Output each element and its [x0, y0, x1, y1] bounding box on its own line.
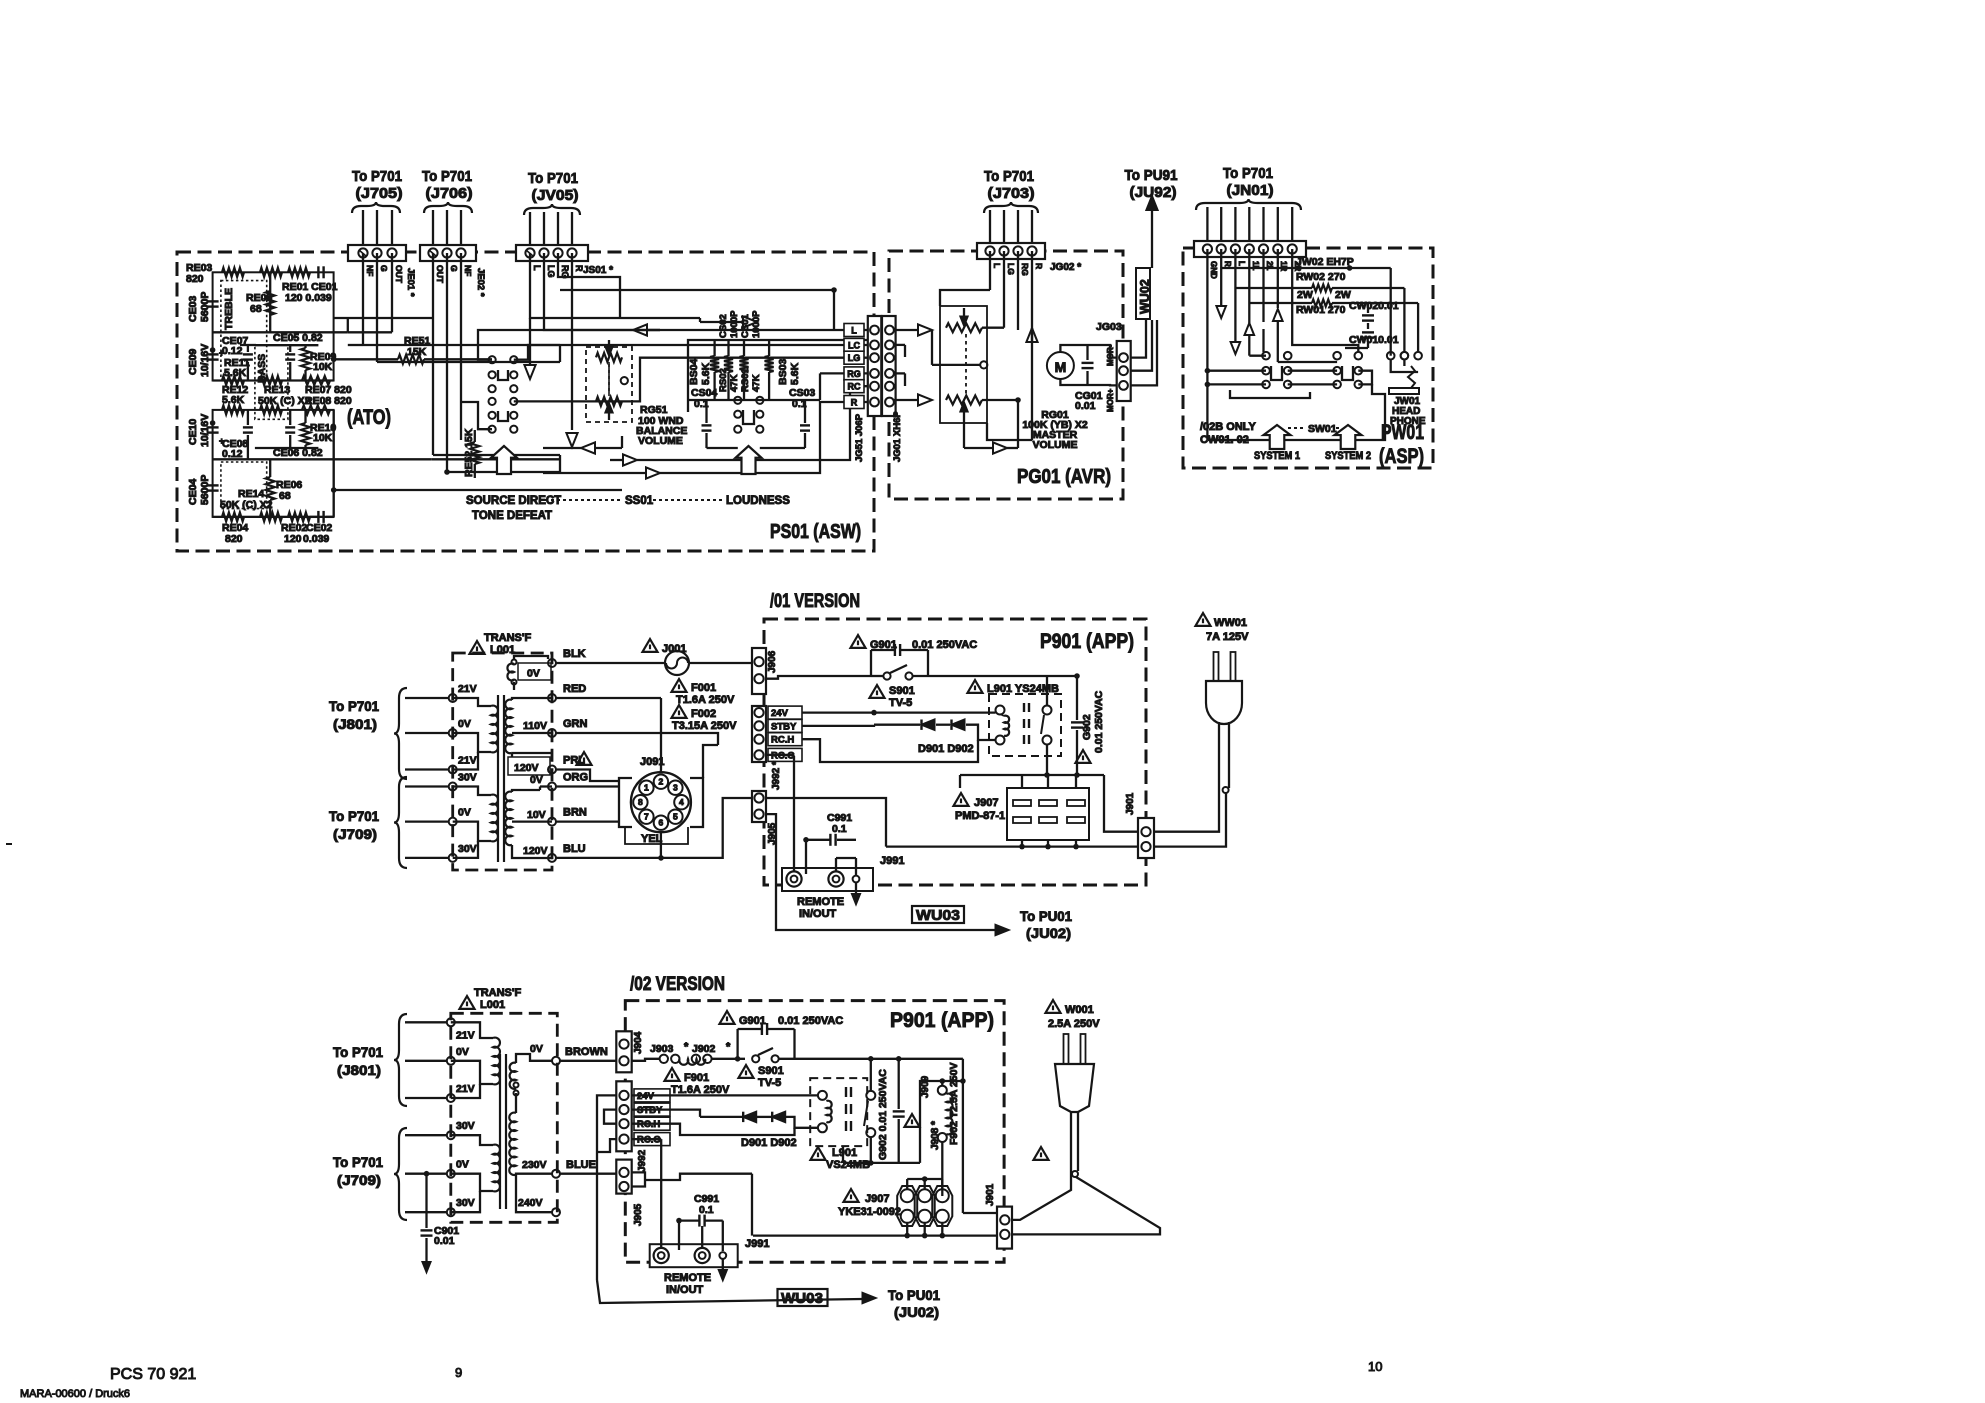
svg-text:0V: 0V [530, 774, 543, 786]
svg-text:2: 2 [659, 777, 664, 787]
svg-text:TONE DEFEAT: TONE DEFEAT [472, 510, 552, 522]
arrow SYSTEM1 [1264, 425, 1291, 449]
svg-text:F002: F002 [691, 708, 716, 720]
wire STBY run /02 [632, 1110, 700, 1117]
capacitor CE02 [317, 511, 319, 523]
pin1 mark JE01 [359, 250, 366, 256]
svg-text:To P701: To P701 [352, 168, 402, 185]
svg-text:LC: LC [848, 340, 860, 350]
svg-text:W001: W001 [1065, 1004, 1094, 1016]
resistor RE12 [222, 376, 244, 385]
wire bottom bus /01 [886, 845, 1140, 847]
svg-text:/01 VERSION: /01 VERSION [770, 591, 860, 612]
svg-text:10/16V: 10/16V [199, 414, 211, 447]
svg-text:R: R [1034, 263, 1044, 269]
wire brown run [560, 1060, 616, 1062]
relay box L901 /02 [810, 1078, 867, 1146]
svg-text:6: 6 [659, 818, 664, 828]
capacitor C991 /01 [829, 834, 831, 846]
pin label LG [844, 351, 864, 364]
svg-text:(JU02): (JU02) [1026, 925, 1071, 941]
pin label RG [844, 367, 864, 380]
svg-text:0V: 0V [530, 1043, 543, 1055]
capacitor CE06 [285, 426, 295, 428]
remote jack2 /02 [695, 1248, 710, 1263]
svg-text:8: 8 [638, 797, 643, 807]
label box WU02 [1136, 268, 1150, 319]
remote box /02 [650, 1244, 738, 1267]
label S901 /01 [870, 685, 885, 698]
svg-text:JG02 *: JG02 * [1050, 262, 1081, 273]
svg-text:BROWN: BROWN [565, 1046, 608, 1058]
svg-text:RS02: RS02 [718, 368, 729, 392]
svg-text:50K (C) X2: 50K (C) X2 [258, 395, 311, 407]
svg-text:WU02: WU02 [1138, 279, 1152, 314]
svg-text:1R: 1R [1279, 261, 1288, 271]
svg-text:10K: 10K [313, 361, 333, 373]
svg-text:F901: F901 [684, 1072, 709, 1084]
transformer core /01 [497, 695, 499, 862]
wire JG01 out [894, 344, 905, 346]
ground C901 [425, 1255, 427, 1263]
pin labels 24V STBY RC.H RC.G /02 [634, 1089, 670, 1102]
connector J992 /01 [752, 706, 766, 762]
capacitor G902 /02 [893, 1110, 905, 1112]
label J907 /02 [844, 1189, 859, 1202]
fuse J909 J908 [938, 1086, 947, 1095]
wire right rail B [333, 410, 335, 517]
svg-text:2.5A 250V: 2.5A 250V [1048, 1018, 1100, 1030]
svg-text:BS04: BS04 [688, 359, 700, 385]
wire pw runs [1262, 329, 1264, 352]
svg-text:JW02 EH7P: JW02 EH7P [1296, 256, 1354, 268]
label W001 [1046, 1000, 1061, 1013]
svg-text:240V: 240V [518, 1197, 543, 1209]
dotted SS01 line1 [545, 499, 621, 501]
rail bottom B [213, 516, 334, 518]
svg-text:JE01 *: JE01 * [405, 268, 416, 297]
wire RC.H run [802, 739, 978, 762]
svg-text:CE05 0.82: CE05 0.82 [273, 332, 323, 344]
component J907 /02 [897, 1186, 917, 1226]
wire JG03 to WU02 [1130, 320, 1146, 358]
svg-text:MOR-: MOR- [1106, 344, 1115, 366]
svg-text:3: 3 [673, 783, 678, 793]
capacitor CS03 [800, 424, 810, 426]
svg-text:(JU02): (JU02) [894, 1304, 939, 1320]
svg-text:0V: 0V [458, 718, 471, 730]
svg-text:VOLUME: VOLUME [638, 435, 683, 447]
wire CE06 [289, 410, 291, 425]
svg-text:G: G [449, 265, 459, 272]
label SW01 [1288, 427, 1304, 429]
arrow pw3 [1273, 309, 1283, 321]
svg-text:0.01: 0.01 [1075, 400, 1096, 412]
wire mesh A1 [334, 317, 433, 319]
capacitor C901 [425, 1174, 427, 1228]
svg-text:J907: J907 [974, 797, 998, 809]
connector J906 [752, 648, 766, 694]
svg-text:S901: S901 [758, 1065, 784, 1077]
secondary coil 2 /01 [505, 792, 512, 846]
wires JV05 [529, 212, 531, 245]
svg-text:0.1: 0.1 [832, 823, 847, 835]
wires to J709 [405, 785, 449, 787]
svg-text:RC.H: RC.H [771, 735, 794, 746]
capacitor CE08 [243, 426, 253, 428]
connector J905 /01 [752, 791, 766, 822]
svg-text:5.6K: 5.6K [700, 362, 712, 385]
dotted SS01 line2 [653, 499, 722, 501]
wire PRL [556, 770, 619, 782]
svg-text:J902: J902 [692, 1043, 716, 1055]
headphone jack JW01 [1391, 359, 1418, 372]
arrow sigR [1026, 328, 1037, 342]
board outline PW01 (ASP) [1183, 248, 1433, 468]
svg-text:L901 YS24MB: L901 YS24MB [987, 683, 1059, 695]
svg-text:WU03: WU03 [916, 907, 960, 924]
resistor B-top2 [260, 405, 282, 414]
transformer out node BLUE [552, 1170, 560, 1178]
svg-text:TRANS'F: TRANS'F [474, 987, 522, 999]
svg-text:CE09: CE09 [187, 349, 199, 375]
net box channel-A top [213, 272, 334, 380]
svg-text:BASS: BASS [256, 354, 268, 383]
svg-text:5.6K: 5.6K [222, 394, 245, 406]
svg-text:To PU01: To PU01 [1020, 908, 1072, 924]
potentiometer RG51-2 [596, 397, 622, 406]
wire right rail /02 [962, 1059, 964, 1081]
svg-text:110V: 110V [523, 720, 547, 732]
resistor top-A2 [260, 268, 282, 277]
svg-text:68: 68 [250, 303, 262, 315]
svg-text:VOLUME: VOLUME [1033, 439, 1078, 451]
connector JG03 [1117, 341, 1131, 401]
svg-text:G902: G902 [1081, 714, 1093, 740]
switch SP bank1 [1262, 367, 1270, 375]
svg-text:WW01: WW01 [1214, 617, 1247, 629]
dotted RE14 box [221, 462, 267, 509]
svg-text:L: L [992, 263, 1002, 268]
label L901 /02 [811, 1147, 826, 1160]
svg-text:(J703): (J703) [988, 185, 1035, 202]
svg-text:10V: 10V [527, 809, 546, 821]
resistor RE02 [288, 512, 310, 521]
label WW01 [1196, 613, 1211, 626]
svg-text:To P701: To P701 [528, 170, 578, 187]
capacitor CG01 [1082, 362, 1094, 364]
wire mesh B2 [447, 471, 560, 473]
connector J904 [616, 1031, 631, 1072]
svg-text:(J705): (J705) [356, 185, 403, 202]
svg-text:PG01 (AVR): PG01 (AVR) [1017, 466, 1111, 488]
resistor RS01 [740, 356, 749, 372]
svg-text:PMD-87-1: PMD-87-1 [955, 810, 1005, 822]
wire out-B [334, 489, 430, 491]
arrow sig4 [743, 316, 757, 327]
svg-text:LG: LG [1006, 263, 1016, 275]
wire bus1 [559, 345, 561, 362]
label F002 [672, 705, 687, 718]
wire J904 link [632, 1059, 660, 1061]
capacitor CE10 [207, 426, 219, 428]
connector J905 /02 [616, 1160, 631, 1194]
svg-text:PS01 (ASW): PS01 (ASW) [770, 521, 861, 543]
wire relay down [1046, 745, 1048, 776]
ground remote /02 [722, 1259, 724, 1271]
pin1 mark JS01 [526, 250, 533, 256]
svg-text:10: 10 [1368, 1359, 1382, 1374]
svg-text:CE06 0.82: CE06 0.82 [273, 447, 323, 459]
svg-text:0.1: 0.1 [699, 1204, 714, 1216]
svg-text:L: L [532, 265, 542, 271]
svg-text:7A 125V: 7A 125V [1206, 631, 1249, 643]
wire to-conn 3 [514, 358, 868, 402]
svg-text:To PU01: To PU01 [888, 1287, 940, 1303]
svg-text:To P701: To P701 [984, 168, 1034, 185]
svg-text:PCS 70 921: PCS 70 921 [110, 1366, 196, 1383]
remote pin3 /02 [719, 1252, 726, 1259]
svg-text:5600P: 5600P [199, 475, 211, 505]
wire remote drops /01 [793, 756, 795, 871]
remote pin3 /01 [853, 876, 860, 883]
wire RC.H run /02 [632, 1124, 795, 1135]
transformer pins /01 [449, 694, 457, 702]
capacitor CE01 [317, 266, 319, 278]
board outline P901 /01 [764, 619, 1146, 885]
svg-text:0.01 250VAC: 0.01 250VAC [1093, 690, 1105, 753]
svg-text:820: 820 [186, 273, 204, 285]
svg-text:21V: 21V [458, 755, 477, 767]
svg-text:(J709): (J709) [333, 826, 377, 842]
wire pots out [982, 327, 1004, 329]
svg-text:0V: 0V [458, 807, 471, 819]
primary coil 2 /01 [491, 795, 498, 842]
wire RE10 [304, 410, 306, 423]
brace JN01 [1196, 199, 1301, 210]
svg-text:24V: 24V [771, 708, 789, 719]
svg-text:RC: RC [848, 382, 861, 392]
svg-text:GRN: GRN [563, 718, 588, 730]
pot frame PG01 [940, 306, 987, 423]
svg-text:LOUDNESS: LOUDNESS [726, 495, 790, 507]
wire mesh A2 [347, 318, 349, 332]
svg-text:OUT: OUT [435, 265, 445, 284]
board outline P901 /02 [625, 1001, 1004, 1263]
svg-text:SS01: SS01 [625, 495, 654, 507]
svg-text:J991: J991 [745, 1238, 769, 1250]
selector stem [660, 770, 662, 772]
svg-text:(J801): (J801) [333, 716, 377, 732]
label box WU03 /01 [912, 906, 964, 923]
resistor RE05 [266, 291, 275, 315]
capacitor G901 [894, 644, 896, 656]
remote box /01 [782, 868, 873, 891]
brace JV05 [524, 204, 580, 215]
wire RE09 row [255, 344, 319, 346]
svg-text:R: R [851, 398, 858, 408]
plug prongs /02 [1064, 1034, 1069, 1064]
svg-text:F902 T2.5A 250V: F902 T2.5A 250V [948, 1063, 960, 1146]
svg-text:(JN01): (JN01) [1227, 182, 1274, 199]
svg-text:BLK: BLK [563, 648, 586, 660]
wire JE01 drops [362, 253, 364, 345]
wire WU02 up [1151, 205, 1153, 268]
pot gang dashes [965, 334, 967, 394]
svg-text:0.01: 0.01 [434, 1235, 455, 1247]
ground remote /01 [855, 883, 857, 895]
secondary coil 1 /01 [505, 700, 512, 754]
svg-text:J905: J905 [633, 1203, 644, 1226]
arrow SYSTEM2 [1335, 425, 1362, 449]
svg-text:J901: J901 [1125, 792, 1136, 815]
brace J801 /02 [394, 1014, 407, 1106]
svg-text:NF: NF [365, 265, 375, 276]
label G901 /02 [720, 1011, 735, 1024]
label F901 [665, 1068, 680, 1081]
svg-text:SYSTEM 1: SYSTEM 1 [1254, 450, 1300, 462]
pot box RG51 [586, 347, 632, 422]
connector JG02 [977, 243, 1045, 259]
capacitor C991 /02 [698, 1215, 700, 1227]
switch contact RG51 [621, 377, 628, 384]
relay switch /02 [866, 1091, 875, 1100]
wire to-conn R [514, 345, 868, 360]
svg-text:To P701: To P701 [333, 1044, 383, 1060]
wire RED [556, 697, 661, 699]
wire out-A long [424, 358, 492, 360]
plug neck /02 [1070, 1112, 1072, 1171]
wire cord2 /02 [1012, 1177, 1160, 1234]
wire to-conn L [478, 330, 868, 360]
label S901 /02 [739, 1065, 754, 1078]
resistor RE02a [260, 512, 282, 521]
primary coil 2 /02 [493, 1145, 500, 1192]
switch SP contacts row [1262, 352, 1270, 360]
relay coil /01 [996, 706, 1005, 715]
svg-text:RE08 820: RE08 820 [305, 395, 352, 407]
wire mid bus /01 [960, 774, 1104, 776]
wire cord1 /01 [1154, 788, 1219, 832]
svg-text:J903: J903 [650, 1043, 674, 1055]
capacitor G902 [1071, 721, 1083, 723]
wire long A [543, 447, 581, 449]
switch contact PG01 [980, 361, 987, 368]
svg-text:J001: J001 [662, 643, 686, 655]
svg-text:BRN: BRN [563, 807, 587, 819]
svg-text:CW020.01: CW020.01 [1349, 300, 1399, 312]
wires J706 [432, 210, 434, 245]
transformer out node BROWN [552, 1057, 560, 1065]
rail mid A [213, 331, 348, 333]
svg-text:30V: 30V [456, 1120, 475, 1132]
capacitor CE07 [243, 353, 253, 355]
capacitor G901 /02 [761, 1023, 763, 1035]
svg-text:/02B ONLY: /02B ONLY [1200, 421, 1257, 433]
svg-text:F001: F001 [691, 682, 716, 694]
svg-text:120V: 120V [523, 845, 548, 857]
svg-text:J992: J992 [637, 1149, 648, 1172]
remote jack2 /01 [828, 871, 843, 886]
pin label L [844, 324, 864, 337]
svg-text:BLU: BLU [563, 843, 586, 855]
svg-text:PW01: PW01 [1381, 421, 1424, 444]
wire G901 loop /02 [736, 1029, 738, 1059]
wire J992 hooks [597, 1095, 616, 1280]
svg-text:L: L [851, 326, 857, 336]
svg-text:BLUE: BLUE [566, 1159, 596, 1171]
svg-text:J904: J904 [633, 1031, 644, 1054]
arrow SS01-B [736, 446, 762, 474]
svg-text:CS02: CS02 [718, 314, 729, 338]
primary coil 1 /02 [493, 1038, 500, 1085]
transformer pins /02 [447, 1018, 455, 1026]
svg-text:CE03: CE03 [187, 296, 199, 322]
svg-text:0.039: 0.039 [303, 533, 329, 545]
motor M [1047, 352, 1074, 379]
label G901 [851, 635, 866, 648]
svg-text:(J706): (J706) [426, 185, 473, 202]
wire RE06 [269, 459, 271, 477]
svg-text:0.12: 0.12 [222, 345, 243, 357]
capacitor CE09 [207, 353, 219, 355]
diode D902 /02 [772, 1112, 785, 1122]
transformer box L001 /02 [451, 1013, 558, 1222]
wires J705 [362, 210, 364, 245]
svg-text:LG: LG [546, 265, 556, 278]
relay coil /02 [818, 1091, 827, 1100]
brace J709 /02 [394, 1128, 407, 1220]
svg-text:47K: 47K [751, 374, 762, 392]
svg-text:21V: 21V [456, 1083, 475, 1095]
potentiometer RG01-2 [946, 396, 982, 405]
svg-text:68: 68 [279, 490, 291, 502]
wire trunk top2 [530, 253, 700, 318]
svg-text:G902 0.01 250VAC: G902 0.01 250VAC [877, 1069, 889, 1160]
dotted TREBLE box [221, 281, 267, 381]
svg-text:120V: 120V [514, 762, 539, 774]
capacitor CS04 [702, 424, 712, 426]
svg-text:J991: J991 [880, 855, 904, 867]
wire JE02 drops [432, 253, 434, 455]
svg-text:VS24MB: VS24MB [826, 1159, 870, 1171]
svg-text:RG: RG [1020, 263, 1030, 276]
resistor RE06 [266, 477, 275, 500]
svg-text:CE04: CE04 [187, 479, 199, 505]
rail mid B [213, 458, 432, 460]
selector wing right [690, 778, 703, 827]
resistor B-top3 [302, 405, 330, 414]
svg-text:TV-5: TV-5 [758, 1077, 781, 1089]
wire diode out [966, 725, 996, 740]
wire relay down /02 [870, 1137, 872, 1163]
svg-text:T1.6A 250V: T1.6A 250V [676, 694, 735, 706]
wire right drop /01 [1104, 775, 1140, 832]
svg-text:To PU91: To PU91 [1125, 167, 1178, 184]
svg-text:MARA-00600 / Druck6: MARA-00600 / Druck6 [20, 1388, 130, 1400]
wire STBY run [802, 725, 874, 726]
svg-text:WU03: WU03 [781, 1290, 823, 1307]
wire motor [1060, 345, 1087, 352]
resistor B-top1 [222, 405, 244, 414]
connector JG01 XH6P [882, 316, 896, 416]
selector pins 1-8 [639, 781, 653, 795]
svg-text:J907: J907 [865, 1193, 889, 1205]
wire 24V run [802, 711, 996, 713]
svg-text:5: 5 [673, 812, 678, 822]
wire to-conn 4 [460, 402, 492, 429]
label 120V a [508, 757, 550, 775]
